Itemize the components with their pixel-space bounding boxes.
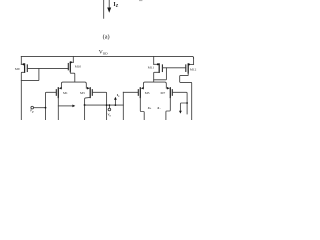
transistor M3 channel (89, 88, 91, 98)
transistor M5 source arrow (141, 87, 144, 90)
transistor M5 gate bar (137, 90, 139, 96)
transistor M5 channel (139, 88, 141, 98)
transistor M12 gate bar (185, 65, 187, 72)
wire M5 gate lead (123, 91, 138, 93)
transistor M12 source riser (193, 58, 195, 65)
transistor M10 source dot (70, 61, 72, 63)
wire M11 diode branch (154, 68, 167, 80)
transistor M10 source riser (72, 56, 74, 62)
current arrow Iz shaft (108, 0, 110, 9)
transistor M12 channel (187, 64, 189, 73)
transistor M12 source dot (188, 63, 190, 65)
wire pair2 tail split (143, 82, 166, 88)
input terminal vp circle (31, 106, 34, 109)
svg-text:M3: M3 (80, 91, 85, 95)
terminal vn circle (108, 108, 111, 111)
transistor M11 source dot (157, 63, 159, 65)
transistor M3 gate bar (91, 90, 93, 96)
transistor M11 channel (158, 64, 160, 72)
junction dot node/gate-drop (106, 104, 108, 106)
transistor M1 source arrow (59, 87, 62, 90)
transistor M9 source lead (21, 63, 24, 65)
svg-text:M5: M5 (145, 91, 150, 95)
transistor M1 drain (57, 98, 59, 121)
transistor M7 gate bar (171, 90, 173, 96)
transistor M5 drain (140, 98, 144, 121)
wire M3 gate to node (92, 92, 106, 120)
transistor M7 channel (169, 88, 171, 98)
svg-text:vn: vn (108, 112, 112, 118)
cropped text remnant top edge (139, 0, 142, 1)
svg-text:(a): (a) (103, 34, 110, 41)
svg-text:IZ: IZ (113, 2, 118, 8)
transistor M9 source drop (20, 56, 22, 64)
svg-text:M10: M10 (75, 65, 82, 69)
wire node vertical to pair2 gate (122, 92, 124, 120)
wire M1 gate lead (46, 92, 57, 120)
current arrow at M1 drain (58, 105, 72, 107)
Vdd rail (21, 56, 193, 58)
wire node line left part (85, 104, 124, 106)
transistor M12 source lead (188, 63, 193, 65)
svg-text:M11: M11 (148, 66, 155, 70)
node dot drain/nodeline (84, 104, 86, 106)
wire pair1 tail split (61, 82, 86, 88)
input terminal vp junction dot (45, 107, 47, 109)
wire M7 gate lead (172, 92, 187, 114)
transistor M10 gate bar (67, 64, 69, 70)
transistor M7 source arrow (167, 87, 170, 90)
terminal vn tick (108, 105, 110, 108)
transistor M12 drain route (180, 73, 192, 120)
transistor M10 channel (69, 62, 71, 71)
transistor M11 drain lead (154, 72, 160, 82)
transistor M9 drain lead (21, 72, 24, 120)
wire M9 diode branch (21, 68, 39, 80)
transistor M7 drain (166, 98, 170, 121)
transistor M1 gate bar (55, 90, 57, 96)
svg-text:M1: M1 (63, 91, 68, 95)
terminal vn dot on node (109, 104, 111, 106)
wire top vertical (103, 0, 105, 18)
transistor M10 drain jog (70, 72, 75, 83)
transistor M11 gate bar (161, 65, 163, 72)
transistor M1 channel (57, 88, 59, 98)
wire M9-M10 gate lead (27, 67, 68, 69)
transistor M11 source lead (154, 63, 160, 65)
input terminal vp wire (33, 107, 45, 109)
svg-text:M9: M9 (15, 67, 20, 71)
transistor M10 source lead (70, 61, 73, 63)
current arrow up at node (114, 100, 116, 106)
transistor M11 source drop (153, 56, 155, 64)
transistor M3 source arrow (87, 87, 90, 90)
svg-text:vp: vp (30, 108, 34, 114)
wire M11-M12 gate lead (162, 67, 185, 69)
svg-text:M12: M12 (190, 67, 197, 71)
transistor M9 source dot (23, 63, 25, 65)
transistor M9 gate bar (26, 65, 28, 72)
wire branch with down arrow (180, 103, 187, 111)
transistor M3 drain (85, 98, 91, 121)
current arrow Iz head (107, 8, 111, 13)
transistor M9 channel (24, 64, 26, 72)
svg-text:M7: M7 (161, 91, 166, 95)
